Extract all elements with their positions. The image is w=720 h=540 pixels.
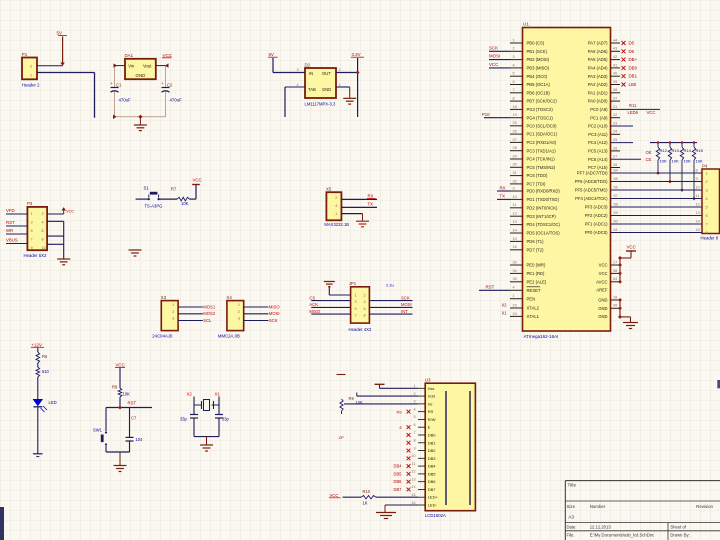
svg-text:14: 14 [513,228,517,232]
svg-text:PB7 (SCK/OC2): PB7 (SCK/OC2) [527,99,558,104]
svg-text:2: 2 [172,310,174,314]
svg-text:38: 38 [613,88,617,92]
svg-text:55: 55 [614,177,618,181]
svg-text:5: 5 [31,229,33,233]
svg-text:23: 23 [513,303,517,307]
svg-text:Drawn By:: Drawn By: [670,533,689,538]
svg-text:MISO: MISO [269,304,280,309]
svg-text:VCC: VCC [627,245,636,250]
svg-text:10K: 10K [181,201,189,206]
svg-text:13: 13 [411,477,415,481]
svg-text:4: 4 [42,220,44,224]
svg-text:2: 2 [364,293,366,297]
svg-text:3: 3 [172,317,174,321]
svg-text:RST: RST [6,220,15,225]
svg-text:LED+: LED+ [428,495,439,500]
svg-text:P4: P4 [702,164,708,169]
svg-text:4: 4 [335,204,337,208]
svg-text:PB3 (MISO): PB3 (MISO) [527,66,550,71]
svg-text:16: 16 [513,245,517,249]
svg-text:12: 12 [513,212,517,216]
svg-text:11: 11 [412,462,416,466]
svg-text:DB5: DB5 [428,471,437,476]
svg-text:28: 28 [513,146,517,150]
svg-text:2: 2 [339,68,341,72]
svg-text:Title: Title [568,483,577,488]
svg-text:PF5 (ADC5/TMS): PF5 (ADC5/TMS) [575,188,608,193]
svg-text:RX: RX [368,194,374,199]
svg-text:510: 510 [42,369,50,374]
svg-text:5: 5 [355,307,357,311]
svg-text:PC6 (A14): PC6 (A14) [588,157,608,162]
svg-text:DB2: DB2 [428,448,437,453]
svg-text:24C04AJ0: 24C04AJ0 [152,334,173,339]
svg-text:3: 3 [513,55,515,59]
svg-text:TS-A3PG: TS-A3PG [145,204,163,209]
svg-text:19: 19 [513,113,517,117]
svg-text:VCC: VCC [116,363,125,368]
svg-text:1: 1 [706,172,708,176]
svg-text:P3: P3 [27,201,33,206]
svg-text:ACK: ACK [309,302,318,307]
svg-text:7: 7 [513,88,515,92]
svg-text:8: 8 [42,237,44,241]
svg-text:MAX3232.1B: MAX3232.1B [324,222,349,227]
svg-text:PD7 (T2): PD7 (T2) [527,247,545,252]
svg-text:MOSI: MOSI [401,302,412,307]
svg-text:PC2 (A10): PC2 (A10) [588,124,608,129]
svg-text:5: 5 [513,72,515,76]
svg-text:DB4: DB4 [394,464,403,469]
svg-text:File:: File: [567,533,575,538]
svg-text:VCC: VCC [599,263,608,268]
svg-text:5: 5 [706,206,708,210]
svg-text:DB1: DB1 [428,440,437,445]
svg-text:7: 7 [413,431,415,435]
svg-text:1K: 1K [363,501,368,506]
svg-text:GND: GND [136,73,146,78]
svg-text:28: 28 [613,163,617,167]
svg-text:JP1: JP1 [349,281,357,286]
svg-text:10K: 10K [684,158,691,163]
svg-text:2: 2 [238,310,240,314]
svg-text:E: E [428,425,431,430]
svg-text:R12: R12 [660,148,668,153]
svg-text:PC1 (A9): PC1 (A9) [590,115,608,120]
svg-text:R6: R6 [42,354,48,359]
svg-text:PA5 (AD5): PA5 (AD5) [588,57,608,62]
svg-text:PD3 (INT1/ICP): PD3 (INT1/ICP) [527,214,557,219]
svg-text:12: 12 [411,470,415,474]
svg-text:PC1 (SDA/OC1): PC1 (SDA/OC1) [527,132,558,137]
svg-text:PF1 (ADC1): PF1 (ADC1) [585,222,608,227]
svg-text:15: 15 [696,228,700,232]
svg-text:32: 32 [513,179,517,183]
svg-text:PF0 (ADC0): PF0 (ADC0) [585,230,608,235]
svg-text:PC3 (A11): PC3 (A11) [588,132,608,137]
svg-text:AVCC: AVCC [596,279,607,284]
svg-text:104: 104 [136,437,144,442]
svg-text:24: 24 [613,130,617,134]
svg-text:C2: C2 [167,83,173,88]
svg-text:35: 35 [513,277,517,281]
svg-text:3.3V: 3.3V [352,52,361,57]
svg-text:PB6 (OC1B): PB6 (OC1B) [527,90,551,95]
svg-text:PG3 (TOSC2): PG3 (TOSC2) [527,107,554,112]
svg-text:14: 14 [411,485,415,489]
svg-text:16: 16 [411,501,415,505]
svg-text:PC5 (A13): PC5 (A13) [588,149,608,154]
svg-text:Vdd: Vdd [428,394,435,399]
svg-text:6: 6 [513,80,515,84]
svg-text:58: 58 [614,202,618,206]
svg-text:56: 56 [614,185,618,189]
svg-text:GND: GND [322,87,331,92]
svg-text:VFD: VFD [6,208,15,213]
svg-text:ZP: ZP [339,435,344,440]
svg-text:RESET: RESET [527,288,541,293]
svg-text:1: 1 [31,212,33,216]
svg-text:42: 42 [613,55,617,59]
svg-text:PF6 (ADC6/TDO): PF6 (ADC6/TDO) [575,179,608,184]
svg-text:PE0 (WR): PE0 (WR) [527,263,546,268]
svg-text:+: + [110,81,113,86]
svg-text:15: 15 [513,237,517,241]
svg-text:RS: RS [397,409,403,414]
svg-text:PA6 (AD6): PA6 (AD6) [588,49,608,54]
svg-text:15: 15 [411,493,415,497]
svg-text:10: 10 [696,185,700,189]
svg-text:P10: P10 [482,112,490,117]
svg-text:13: 13 [696,211,700,215]
svg-text:7: 7 [31,237,33,241]
svg-text:470uF: 470uF [119,98,132,103]
svg-text:VCC: VCC [163,53,173,58]
svg-text:Header 4X2: Header 4X2 [349,327,373,332]
svg-text:MOS1: MOS1 [203,304,216,309]
svg-text:TX: TX [500,194,506,199]
svg-text:Vss: Vss [428,386,435,391]
svg-text:26: 26 [613,146,617,150]
svg-text:SCK: SCK [401,295,410,300]
svg-text:VCC: VCC [647,110,656,115]
svg-text:X4: X4 [226,295,232,300]
svg-text:VCC: VCC [193,178,202,183]
svg-text:X2: X2 [187,391,193,396]
svg-text:SCL: SCL [203,318,212,323]
svg-text:13: 13 [513,220,517,224]
svg-text:Header 5X2: Header 5X2 [24,253,48,258]
svg-text:9: 9 [513,186,515,190]
svg-text:INT: INT [401,309,408,314]
svg-text:DB7: DB7 [428,487,437,492]
svg-text:+12V: +12V [32,342,42,347]
svg-text:3: 3 [413,400,415,404]
svg-text:PA0 (AD0): PA0 (AD0) [588,99,608,104]
svg-text:5V: 5V [57,31,62,36]
svg-text:PC4 (A12): PC4 (A12) [588,140,608,145]
svg-text:4: 4 [297,83,299,87]
svg-text:OUT: OUT [322,71,331,76]
svg-text:Header 2: Header 2 [22,83,40,88]
svg-text:TAB: TAB [308,87,316,92]
svg-text:DB4: DB4 [428,464,437,469]
svg-text:DB6: DB6 [428,479,437,484]
svg-text:X3: X3 [161,295,167,300]
svg-text:470uF: 470uF [170,98,183,103]
svg-text:PE2 (ALE): PE2 (ALE) [527,279,547,284]
svg-text:PD2 (INT0/XCK): PD2 (INT0/XCK) [527,205,559,210]
svg-text:LCD1602A: LCD1602A [425,513,446,518]
svg-text:54: 54 [614,168,618,172]
svg-text:11: 11 [696,194,700,198]
svg-text:37: 37 [613,97,617,101]
svg-text:8: 8 [364,314,366,318]
svg-text:Number: Number [590,504,606,509]
svg-text:11: 11 [513,203,517,207]
svg-text:25: 25 [513,121,517,125]
svg-text:Vin: Vin [128,63,135,68]
svg-text:R9: R9 [349,396,355,401]
svg-text:44: 44 [613,38,617,42]
svg-text:PF2 (ADC2): PF2 (ADC2) [585,213,608,218]
svg-text:33p: 33p [180,416,188,421]
svg-text:C1: C1 [116,83,122,88]
svg-text:22: 22 [613,113,617,117]
svg-text:33p: 33p [222,416,230,421]
svg-text:3: 3 [706,189,708,193]
svg-text:34: 34 [513,269,517,273]
svg-text:2: 2 [706,180,708,184]
svg-text:R15: R15 [696,148,704,153]
svg-text:IN: IN [309,71,313,76]
svg-text:X1: X1 [215,391,221,396]
svg-text:Revision: Revision [696,504,713,509]
svg-text:8: 8 [696,168,698,172]
svg-text:RST: RST [486,284,495,289]
svg-text:VBUS: VBUS [6,238,18,243]
svg-text:LED: LED [49,400,57,405]
svg-text:PF3 (ADC3): PF3 (ADC3) [585,205,608,210]
svg-text:LED6: LED6 [628,110,639,115]
svg-text:Vout: Vout [143,63,152,68]
svg-text:23: 23 [613,121,617,125]
svg-text:LED-: LED- [428,503,438,508]
svg-text:DB0: DB0 [428,432,437,437]
svg-text:E:\My Documents\usb_lcd.SchDoc: E:\My Documents\usb_lcd.SchDoc [590,533,654,538]
svg-text:7: 7 [706,223,708,227]
svg-text:PC6 (TDO): PC6 (TDO) [527,173,549,178]
svg-text:25: 25 [613,138,617,142]
svg-text:PD5 (OC1A/TOS): PD5 (OC1A/TOS) [527,231,561,236]
svg-text:MOS2: MOS2 [203,311,216,316]
svg-text:10: 10 [411,454,415,458]
svg-text:PC2 (RXD1/A0): PC2 (RXD1/A0) [527,140,557,145]
svg-text:10K: 10K [356,399,363,404]
svg-text:RST: RST [128,401,137,406]
svg-text:1: 1 [172,303,174,307]
svg-text:2: 2 [413,392,415,396]
svg-text:DB+: DB+ [629,57,638,62]
svg-text:Size: Size [567,504,576,509]
svg-text:TX: TX [368,202,374,207]
svg-text:SW1: SW1 [93,428,103,433]
svg-text:VCC: VCC [330,493,339,498]
svg-text:1: 1 [355,293,357,297]
svg-text:41: 41 [613,63,617,67]
svg-text:DB6: DB6 [394,479,403,484]
svg-text:18: 18 [513,105,517,109]
svg-text:PD1 (TXD0/TXD): PD1 (TXD0/TXD) [527,197,560,202]
svg-text:RX: RX [500,185,506,190]
svg-text:WR: WR [6,228,13,233]
svg-text:60: 60 [614,219,618,223]
svg-text:ATmega162-16AI: ATmega162-16AI [524,334,559,339]
svg-text:LM1117MPX-3.3: LM1117MPX-3.3 [305,102,336,107]
svg-text:30: 30 [513,163,517,167]
svg-text:PC4 (TCK/IN1): PC4 (TCK/IN1) [527,157,556,162]
svg-text:57: 57 [614,194,618,198]
svg-text:PC7 (A15): PC7 (A15) [588,165,608,170]
svg-text:PEN: PEN [527,296,536,301]
svg-text:CS: CS [309,295,315,300]
svg-text:RS: RS [428,409,434,414]
svg-text:18: 18 [613,295,617,299]
svg-text:14: 14 [696,219,700,223]
svg-text:SCK: SCK [489,45,498,50]
svg-text:PA7 (AD7): PA7 (AD7) [588,41,608,46]
svg-text:A3: A3 [568,515,574,520]
svg-text:26: 26 [513,130,517,134]
svg-text:C7: C7 [131,416,137,421]
svg-text:GND: GND [598,298,607,303]
svg-text:39: 39 [613,304,617,308]
svg-text:6: 6 [42,229,44,233]
svg-text:PA3 (AD3): PA3 (AD3) [588,74,608,79]
svg-text:4: 4 [413,407,415,411]
svg-text:8: 8 [413,439,415,443]
svg-text:MMC2A.0B: MMC2A.0B [218,334,240,339]
svg-text:MISO: MISO [309,309,320,314]
svg-text:PA4 (AD4): PA4 (AD4) [588,66,608,71]
svg-text:D2: D2 [305,63,311,68]
svg-text:VCC: VCC [66,209,74,214]
svg-text:PD6 (T1): PD6 (T1) [527,239,545,244]
svg-text:33: 33 [513,260,517,264]
svg-text:5: 5 [413,415,415,419]
svg-text:R14: R14 [684,148,692,153]
svg-text:R11: R11 [629,103,637,108]
svg-text:59: 59 [614,211,618,215]
svg-text:4: 4 [364,300,366,304]
svg-text:2: 2 [30,64,32,68]
svg-text:3: 3 [355,300,357,304]
svg-text:2: 2 [335,196,337,200]
svg-text:PE1 (RD): PE1 (RD) [527,271,546,276]
svg-text:X5: X5 [326,187,332,192]
svg-text:PC0 (SCL/OC0): PC0 (SCL/OC0) [527,123,558,128]
svg-text:PF4 (ADC4/TCK): PF4 (ADC4/TCK) [575,196,608,201]
svg-text:8: 8 [706,231,708,235]
svg-text:PA1 (AD1): PA1 (AD1) [588,90,608,95]
svg-text:1: 1 [30,73,32,77]
svg-text:GND: GND [598,314,607,319]
svg-text:10K: 10K [672,158,679,163]
svg-text:12.12.2013: 12.12.2013 [590,525,612,530]
svg-text:DB5: DB5 [394,471,403,476]
svg-text:10K: 10K [123,392,131,397]
svg-text:4: 4 [513,286,515,290]
svg-text:VCC: VCC [599,271,608,276]
svg-text:U1: U1 [523,22,529,27]
svg-text:R13: R13 [672,148,680,153]
svg-text:X1: X1 [502,311,508,316]
svg-text:PA2 (AD2): PA2 (AD2) [588,82,608,87]
svg-text:3: 3 [238,317,240,321]
svg-text:GND: GND [598,306,607,311]
svg-text:AREF: AREF [596,288,608,293]
svg-text:27: 27 [613,155,617,159]
svg-text:OE: OE [646,150,652,155]
svg-text:61: 61 [614,228,618,232]
svg-text:PC5 (TMS/IN2): PC5 (TMS/IN2) [527,165,556,170]
svg-text:DB3: DB3 [428,456,437,461]
svg-text:PC7 (TDI): PC7 (TDI) [527,182,546,187]
svg-text:39: 39 [613,80,617,84]
svg-text:P1: P1 [22,52,28,57]
svg-text:Sheet of: Sheet of [670,525,686,530]
svg-text:10: 10 [513,195,517,199]
svg-text:7: 7 [355,314,357,318]
svg-text:3: 3 [31,220,33,224]
svg-text:9: 9 [413,446,415,450]
svg-text:24: 24 [513,312,517,316]
svg-text:XTAL1: XTAL1 [527,314,540,319]
svg-text:+: + [161,81,164,86]
svg-text:9: 9 [31,246,33,250]
svg-text:R8: R8 [112,385,118,390]
svg-text:U3: U3 [425,378,431,383]
svg-text:DB7: DB7 [394,487,403,492]
svg-text:PB0 (CS): PB0 (CS) [527,41,545,46]
svg-text:38: 38 [613,269,617,273]
svg-text:27: 27 [513,138,517,142]
svg-text:10K: 10K [660,158,667,163]
svg-text:5V: 5V [269,52,274,57]
svg-text:PB1 (SCK): PB1 (SCK) [527,49,548,54]
svg-text:1: 1 [335,212,337,216]
svg-text:MOSI: MOSI [269,311,280,316]
svg-text:1: 1 [413,384,415,388]
svg-text:PC0 (A8): PC0 (A8) [590,107,608,112]
svg-text:29: 29 [513,154,517,158]
svg-text:2.2u: 2.2u [386,283,394,288]
svg-text:4: 4 [513,63,515,67]
svg-text:E: E [400,425,403,430]
svg-text:8: 8 [513,97,515,101]
svg-text:2: 2 [513,47,515,51]
svg-text:R7: R7 [171,187,177,192]
svg-text:PD4 (TOSC1/OC): PD4 (TOSC1/OC) [527,222,561,227]
svg-text:PC3 (TXD1/A1): PC3 (TXD1/A1) [527,148,557,153]
svg-text:Header 8: Header 8 [701,236,719,241]
svg-text:6: 6 [706,214,708,218]
svg-text:2: 2 [42,212,44,216]
svg-text:6: 6 [413,423,415,427]
svg-text:D6: D6 [629,49,635,54]
svg-text:R10: R10 [363,489,371,494]
svg-text:DB0: DB0 [629,65,638,70]
